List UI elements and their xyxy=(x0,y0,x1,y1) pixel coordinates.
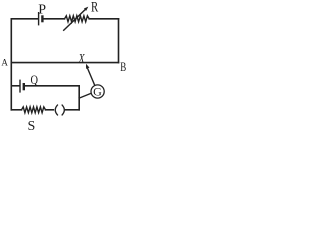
svg-text:S: S xyxy=(28,119,36,131)
svg-text:X: X xyxy=(78,50,86,65)
svg-text:R: R xyxy=(91,0,98,16)
svg-text:B: B xyxy=(120,59,126,74)
svg-text:A: A xyxy=(1,58,8,68)
svg-text:P: P xyxy=(38,3,46,18)
svg-text:Q: Q xyxy=(31,72,39,87)
svg-text:G: G xyxy=(93,85,102,99)
